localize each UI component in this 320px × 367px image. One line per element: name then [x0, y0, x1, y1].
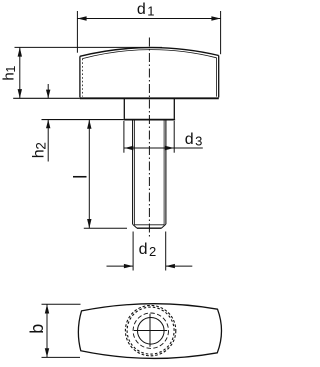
svg-text:b: b	[27, 324, 47, 334]
dashed circle	[133, 313, 168, 348]
svg-text:d3: d3	[185, 131, 203, 149]
thread tip chamfer	[134, 224, 164, 226]
knob head outline	[80, 48, 219, 98]
knurl ring (scalloped)	[125, 305, 175, 355]
centerline of screw (vertical dash-dot)	[148, 38, 150, 239]
h1 dimension	[15, 47, 163, 98]
l dimension	[88, 120, 90, 229]
d1 dimension	[77, 11, 220, 54]
thread outer lines	[132, 121, 134, 225]
b dimension	[42, 304, 81, 357]
svg-text:d1: d1	[137, 1, 155, 19]
svg-text:l: l	[70, 175, 90, 179]
h2 dimension	[47, 84, 49, 162]
crosshair centerlines	[134, 330, 167, 332]
svg-text:h2: h2	[31, 142, 49, 158]
knob head inner contour line	[82, 50, 216, 97]
bottom view: knob bar outline	[78, 304, 221, 359]
hub bottom edge (thick) with left extension line	[42, 119, 124, 121]
thread core lines	[133, 121, 135, 225]
d2 dimension	[107, 232, 193, 271]
thread-end extension line for l	[84, 227, 127, 229]
d3 dimension: hanging extension lines	[123, 121, 125, 153]
hub / shank	[123, 98, 125, 119]
head bottom edge (thick) with left extension	[13, 97, 80, 99]
svg-text:d2: d2	[139, 241, 157, 259]
d3 dimension line and arrows	[124, 147, 203, 149]
solid circle (hub)	[138, 318, 165, 345]
